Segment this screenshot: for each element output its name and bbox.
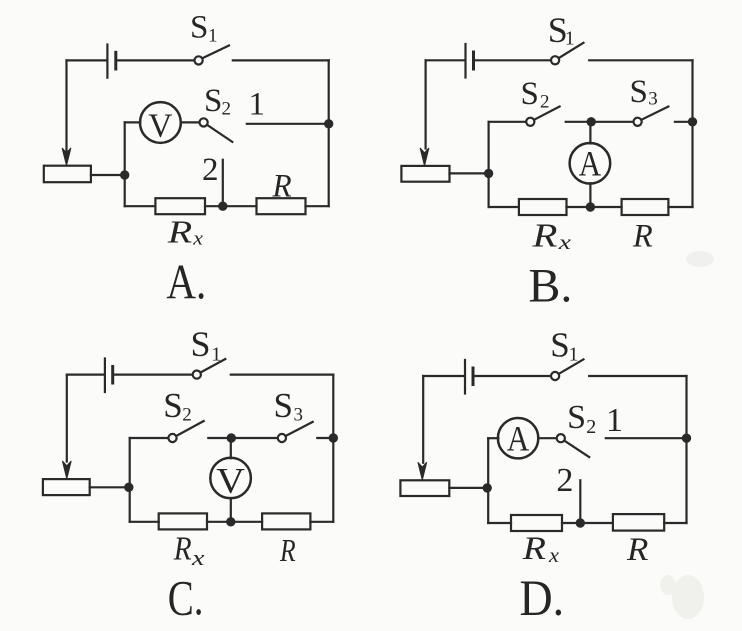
svg-text:S: S	[521, 76, 539, 112]
wire: C left vertical to rheostat	[66, 375, 68, 462]
svg-text:x: x	[548, 544, 560, 567]
node: A rheostat junction	[121, 171, 128, 178]
svg-text:2: 2	[586, 416, 596, 438]
node: D contact2 on bottom wire	[577, 519, 584, 526]
wire: C node down to voltmeter	[230, 438, 232, 458]
wire: A S1 contact to top-right corner	[233, 59, 329, 61]
wire: B S2 contact to ammeter node	[566, 121, 634, 123]
switch S1 (C) pivot	[193, 371, 201, 379]
rheostat arrow (B)	[420, 148, 429, 166]
wire: B node down to ammeter	[589, 122, 591, 144]
rheostat arrow (D)	[418, 462, 427, 480]
wire: A left vertical to rheostat	[65, 60, 67, 152]
rheostat box (A)	[44, 166, 91, 183]
svg-text:R: R	[632, 218, 653, 254]
svg-text:x: x	[558, 231, 571, 254]
resistor R (C)	[262, 513, 310, 529]
svg-text:2: 2	[222, 99, 232, 120]
switch S2 (D) pivot	[557, 434, 565, 442]
wire: B right vertical	[691, 60, 693, 207]
svg-text:V: V	[216, 461, 245, 501]
wire: A inner-left vertical	[124, 122, 126, 206]
battery B short plate	[472, 52, 475, 69]
svg-text:3: 3	[294, 405, 304, 426]
node: C rheostat junction	[125, 484, 132, 491]
rheostat arrow (C)	[62, 461, 71, 479]
wire: B ammeter to bottom node	[589, 183, 591, 207]
node: A contact1 on right wire	[325, 120, 332, 127]
svg-text:3: 3	[648, 89, 658, 110]
resistor R (D)	[613, 514, 664, 531]
svg-text:x: x	[192, 229, 203, 249]
svg-text:S: S	[190, 10, 208, 46]
svg-text:1: 1	[565, 28, 575, 50]
wire: C S2 contact to voltmeter node	[208, 437, 277, 439]
battery C long plate	[104, 359, 106, 393]
switch S1 (D) lever	[559, 359, 584, 374]
wire: C rheostat to node	[90, 486, 130, 488]
resistor Rx (C)	[159, 513, 207, 529]
svg-text:S: S	[204, 83, 222, 119]
svg-text:x: x	[191, 547, 205, 571]
svg-text:R: R	[626, 532, 649, 568]
wire: D R to right corner	[664, 522, 686, 524]
rheostat arrow (A)	[62, 148, 71, 166]
wire: C bottom left segment	[130, 521, 159, 523]
voltmeter V2 (C) circle	[210, 458, 251, 499]
svg-text:B.: B.	[528, 259, 572, 312]
wire: B inner-left vertical	[488, 122, 490, 207]
svg-text:S: S	[567, 399, 586, 436]
switch S3 (C) pivot	[278, 434, 286, 442]
ammeter A2 (D) circle	[498, 418, 538, 458]
switch S2 (C) lever	[176, 421, 204, 436]
wire: D S1 contact to top-right corner	[589, 375, 686, 377]
svg-text:1: 1	[249, 86, 266, 122]
wire: A battery to S1	[116, 59, 195, 61]
switch S2 (D) lever	[564, 441, 589, 458]
wire: B bottom left segment	[489, 206, 519, 208]
wire: D left vertical to rheostat	[422, 376, 424, 463]
svg-text:C.: C.	[168, 570, 204, 626]
svg-text:A: A	[507, 419, 529, 459]
wire: A corner to voltmeter	[125, 121, 141, 123]
wire: B middle wire to S2	[489, 121, 526, 123]
svg-text:R: R	[272, 167, 292, 204]
wire: D battery to S1	[473, 375, 551, 377]
wire: A voltmeter to S2	[181, 121, 200, 123]
switch S2 (C) pivot	[168, 434, 176, 442]
wire: B R to right corner	[668, 206, 692, 208]
wire: D contact 1 line	[606, 437, 687, 439]
wire: D rheostat to node	[449, 487, 488, 489]
wire: C S3 contact to right wire	[317, 437, 333, 439]
wire: A contact 1 line	[247, 123, 329, 125]
svg-text:S: S	[163, 386, 182, 425]
wire: B rheostat to node	[450, 172, 489, 174]
battery C short plate	[111, 367, 114, 384]
rheostat box (D)	[400, 480, 449, 496]
battery A long plate	[106, 45, 108, 78]
wire: C between Rx and R	[207, 521, 262, 523]
wire: B battery to S1	[474, 59, 551, 61]
node: B bottom junction	[587, 203, 594, 210]
wire: D bottom left segment	[488, 522, 511, 524]
wire: B top-left from corner to battery	[426, 59, 465, 61]
switch S2 (A) pivot	[200, 118, 208, 126]
switch S2 (B) lever	[534, 107, 560, 120]
wire: D contact 2 stub	[579, 480, 581, 523]
wire: D corner to ammeter	[488, 437, 498, 439]
wire: C R to right corner	[310, 521, 333, 523]
wire: A top-left from battery to corner	[67, 59, 107, 61]
svg-text:2: 2	[556, 462, 573, 499]
wire: C battery to S1	[113, 374, 193, 376]
wire: B S1 contact to top-right corner	[589, 59, 692, 61]
svg-text:1: 1	[208, 26, 218, 47]
node: D rheostat junction	[484, 484, 491, 491]
switch S1 (B) pivot	[551, 56, 559, 64]
svg-text:A: A	[579, 144, 601, 184]
svg-text:2: 2	[202, 152, 219, 188]
wire: D inner-left vertical	[487, 438, 489, 523]
resistor Rx (B)	[519, 199, 567, 215]
switch S3 (B) pivot	[634, 118, 642, 126]
wire: B S3 contact to right wire	[675, 121, 693, 123]
switch S1 (A) lever	[202, 46, 229, 59]
node: B rheostat junction	[485, 170, 492, 177]
wire: A rheostat to node	[91, 174, 125, 176]
svg-text:1: 1	[569, 344, 579, 366]
resistor R (A)	[257, 198, 306, 214]
switch S1 (A) pivot	[195, 56, 203, 64]
wire: B left vertical to rheostat	[425, 60, 427, 148]
rheostat box (C)	[43, 479, 90, 495]
battery D short plate	[472, 368, 475, 385]
wire: D between Rx and R	[562, 522, 613, 524]
svg-text:2: 2	[540, 92, 550, 113]
svg-text:2: 2	[182, 405, 192, 426]
wire: C top-left from corner to battery	[67, 374, 104, 376]
battery B long plate	[464, 44, 466, 78]
node: A contact2 on bottom wire	[219, 203, 226, 210]
switch S3 (C) lever	[286, 422, 313, 436]
node: C voltmeter top junction	[228, 434, 235, 441]
node: C right wire junction	[330, 434, 337, 441]
resistor Rx (D)	[511, 515, 562, 531]
svg-text:D.: D.	[520, 571, 565, 627]
wire: D right vertical	[685, 376, 687, 523]
svg-text:1: 1	[211, 343, 221, 365]
switch S2 (B) pivot	[526, 118, 534, 126]
svg-text:R: R	[279, 533, 296, 568]
resistor R (B)	[622, 199, 669, 215]
wire: C inner-left vertical	[129, 438, 131, 522]
svg-text:S: S	[550, 326, 569, 365]
wire: A right vertical	[328, 60, 330, 206]
switch S1 (C) lever	[201, 359, 226, 373]
wire: A bottom left segment	[125, 205, 156, 207]
wire: C right vertical	[332, 375, 334, 522]
svg-text:R: R	[522, 529, 547, 566]
svg-text:S: S	[274, 386, 293, 425]
node: B right wire junction	[689, 118, 696, 125]
svg-text:S: S	[630, 74, 648, 110]
wire: D top-left from corner to battery	[423, 375, 464, 377]
svg-text:R: R	[531, 218, 557, 255]
battery D long plate	[464, 360, 466, 394]
resistor Rx (A)	[155, 198, 205, 214]
wire: D ammeter to S2	[538, 437, 557, 439]
battery A short plate	[114, 52, 117, 69]
switch S3 (B) lever	[641, 107, 668, 120]
node: C bottom junction	[227, 518, 234, 525]
svg-text:S: S	[191, 324, 211, 364]
wire: C voltmeter to bottom node	[230, 498, 232, 522]
switch S1 (D) pivot	[551, 372, 559, 380]
wire: A R to right corner	[306, 205, 329, 207]
rheostat box (B)	[401, 166, 449, 182]
svg-text:R: R	[173, 529, 192, 567]
svg-text:V: V	[148, 108, 172, 145]
svg-text:1: 1	[606, 402, 623, 439]
svg-text:R: R	[167, 214, 193, 249]
switch S2 (A) lever	[207, 125, 232, 142]
wire: A between Rx and R	[205, 205, 257, 207]
ammeter A1 (B) circle	[570, 143, 611, 184]
wire: B between Rx and R	[567, 206, 622, 208]
voltmeter V1 (A) circle	[140, 102, 181, 143]
node: D contact1 on right wire	[683, 435, 690, 442]
node: B ammeter top junction	[588, 118, 595, 125]
wire: A contact 2 stub	[222, 160, 224, 206]
wire: C middle wire to S2	[130, 437, 169, 439]
svg-text:A.: A.	[166, 254, 206, 310]
switch S1 (B) lever	[559, 43, 584, 58]
wire: C S1 contact to top-right corner	[231, 374, 333, 376]
